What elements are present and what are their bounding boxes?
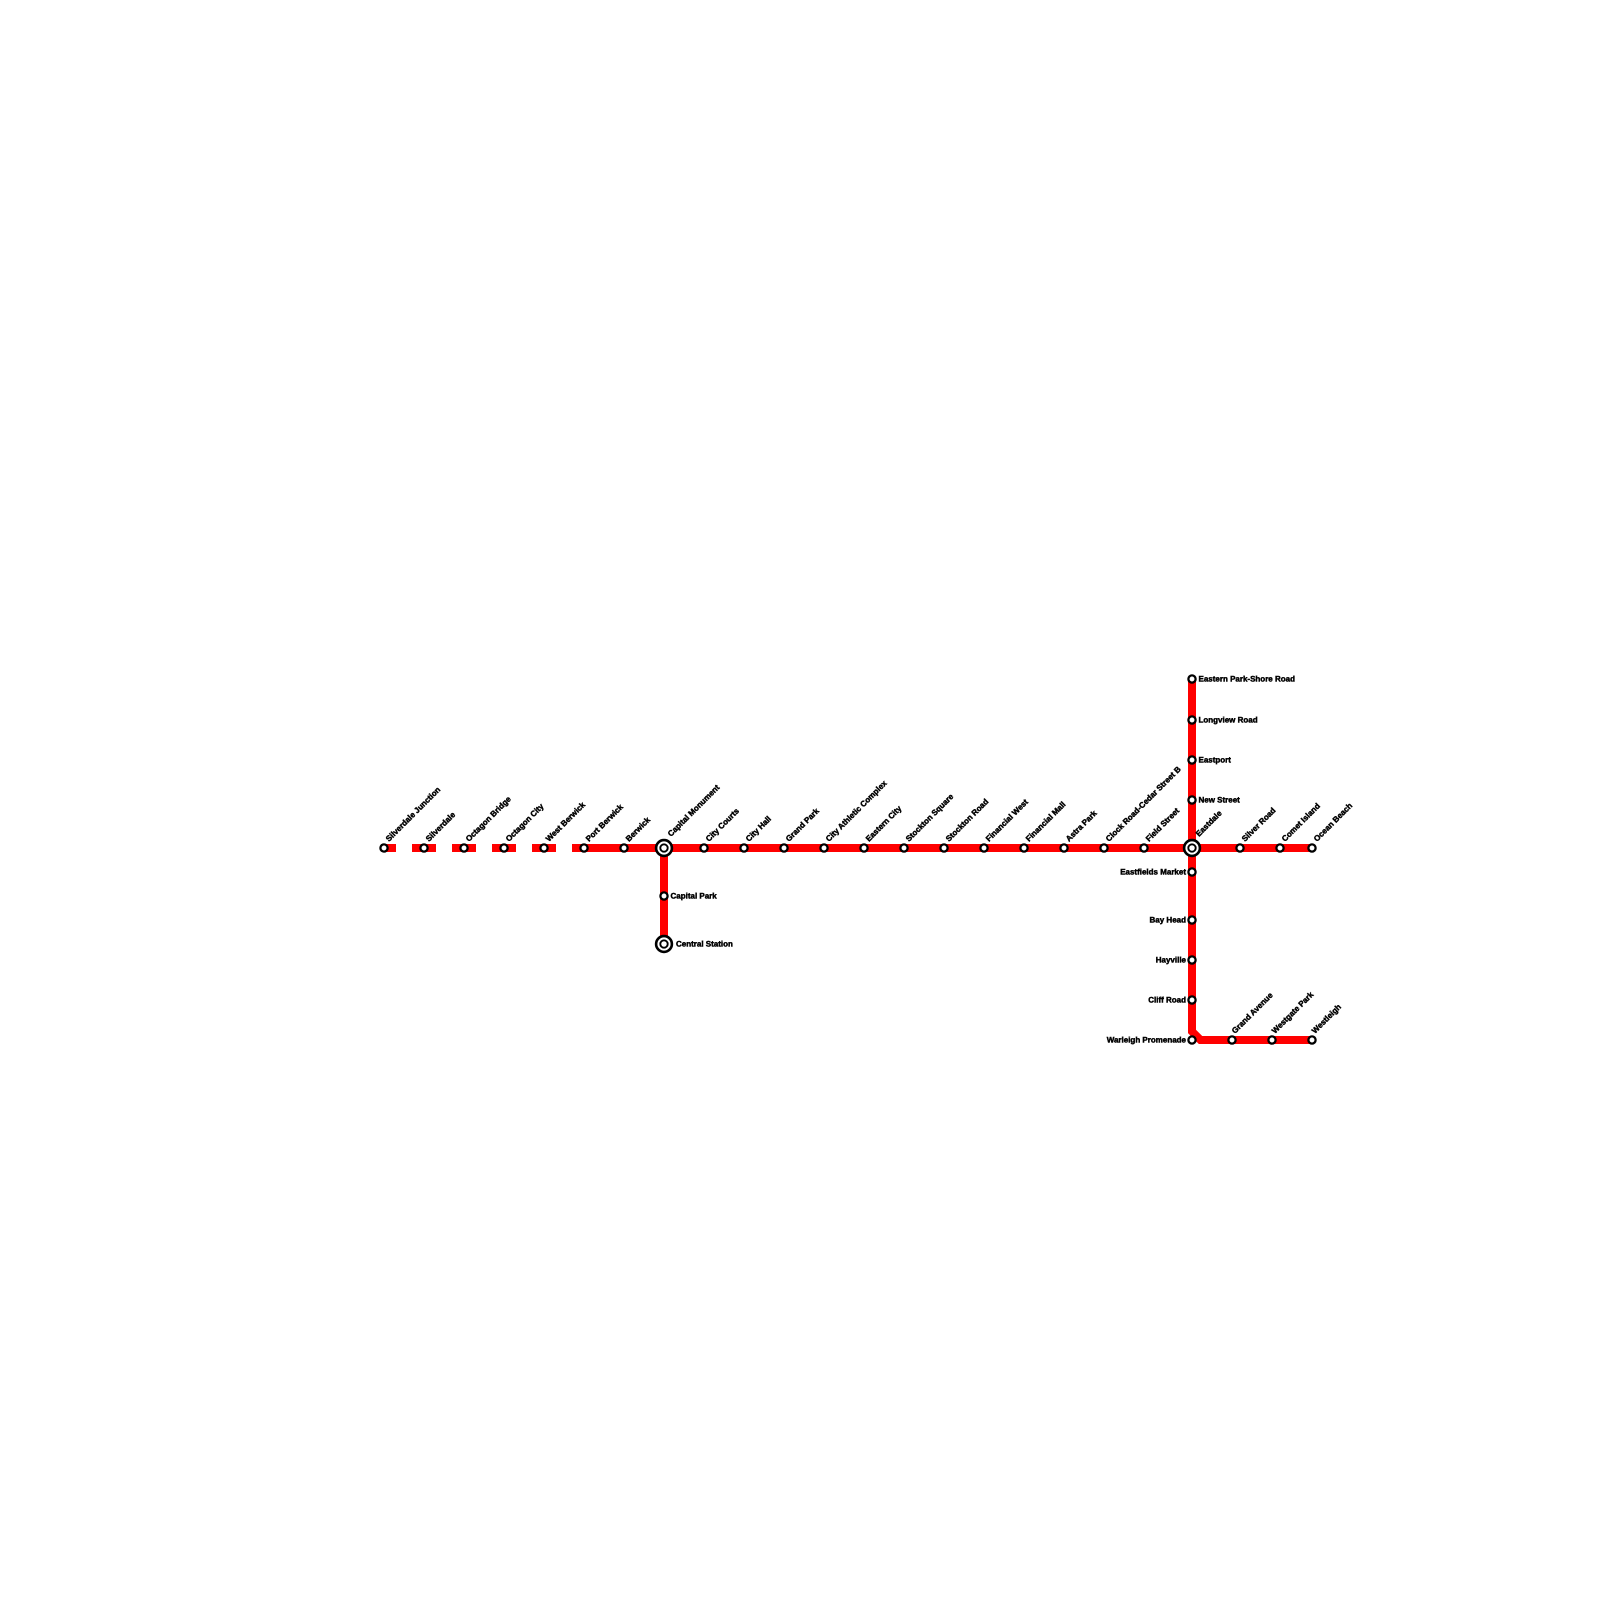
label Westgate Park <box>1270 990 1316 1036</box>
label Port Berwick <box>584 802 625 843</box>
station Silver Road <box>1236 844 1243 851</box>
svg-text:Central Station: Central Station <box>676 940 733 949</box>
label Financial West <box>984 797 1030 843</box>
label City Athletic Complex <box>824 778 889 843</box>
station Financial West <box>980 844 987 851</box>
station Central Station <box>656 936 672 952</box>
label Astra Park <box>1064 808 1099 843</box>
label Eastdale <box>1194 808 1224 838</box>
svg-text:Warleigh Promenade: Warleigh Promenade <box>1107 1036 1187 1045</box>
label West Berwick <box>544 800 587 843</box>
label Grand Park <box>784 806 821 843</box>
station Astra Park <box>1060 844 1067 851</box>
label Silverdale Junction <box>384 785 442 843</box>
station Silverdale <box>420 844 427 851</box>
station City Courts <box>700 844 707 851</box>
station Eastern City <box>860 844 867 851</box>
station Field Street <box>1140 844 1147 851</box>
station Capital Monument <box>656 840 672 856</box>
label City Courts <box>704 806 741 843</box>
label Cliff Road <box>1148 996 1186 1005</box>
svg-text:Eastport: Eastport <box>1199 756 1232 765</box>
svg-text:Longview Road: Longview Road <box>1199 716 1258 725</box>
station Stockton Road <box>940 844 947 851</box>
label Grand Avenue <box>1230 990 1275 1035</box>
label Capital Monument <box>666 783 722 839</box>
node stations <box>380 675 1315 1043</box>
station Eastern Park-Shore Road <box>1188 675 1195 682</box>
svg-text:New Street: New Street <box>1199 796 1241 805</box>
station Clock Road-Cedar Street B <box>1100 844 1107 851</box>
station Comet Island <box>1276 844 1283 851</box>
label Central Station <box>676 940 733 949</box>
svg-text:Eastfields Market: Eastfields Market <box>1120 868 1186 877</box>
label New Street <box>1199 796 1241 805</box>
station Stockton Square <box>900 844 907 851</box>
svg-text:Eastern Park-Shore Road: Eastern Park-Shore Road <box>1199 675 1296 684</box>
svg-text:Capital Park: Capital Park <box>671 892 718 901</box>
station Eastdale <box>1184 840 1200 856</box>
station Ocean Beach <box>1308 844 1315 851</box>
wire central branch down from Capital Monument <box>660 848 668 944</box>
station Grand Park <box>780 844 787 851</box>
svg-text:Cliff Road: Cliff Road <box>1148 996 1186 1005</box>
label Bay Head <box>1150 916 1187 925</box>
station Berwick <box>620 844 627 851</box>
label Field Street <box>1144 806 1181 843</box>
station Westgate Park <box>1268 1036 1275 1043</box>
station Grand Avenue <box>1228 1036 1235 1043</box>
station City Athletic Complex <box>820 844 827 851</box>
label Capital Park <box>671 892 718 901</box>
label Silver Road <box>1240 806 1278 844</box>
station Silverdale Junction <box>380 844 387 851</box>
station Eastport <box>1188 756 1195 763</box>
label Comet Island <box>1280 801 1322 843</box>
label Financial Mall <box>1024 800 1067 843</box>
label Clock Road-Cedar Street B <box>1104 765 1183 844</box>
label Eastern Park-Shore Road <box>1199 675 1296 684</box>
svg-text:Bay Head: Bay Head <box>1150 916 1187 925</box>
label Stockton Square <box>904 792 956 844</box>
station Eastfields Market <box>1188 868 1195 875</box>
label Ocean Beach <box>1312 801 1354 843</box>
label Octagon Bridge <box>464 794 513 843</box>
station City Hall <box>740 844 747 851</box>
label Westleigh <box>1310 1002 1343 1035</box>
station Octagon Bridge <box>460 844 467 851</box>
station Port Berwick <box>580 844 587 851</box>
label Eastfields Market <box>1120 868 1186 877</box>
svg-text:Hayville: Hayville <box>1156 956 1187 965</box>
station Financial Mall <box>1020 844 1027 851</box>
wire dashed western section of red line <box>384 844 572 852</box>
label Octagon City <box>504 801 546 843</box>
station Westleigh <box>1308 1036 1315 1043</box>
label Warleigh Promenade <box>1107 1036 1187 1045</box>
station Octagon City <box>500 844 507 851</box>
label City Hall <box>744 814 773 843</box>
station West Berwick <box>540 844 547 851</box>
station Longview Road <box>1188 716 1195 723</box>
station Capital Park <box>660 892 667 899</box>
label Silverdale <box>424 810 457 843</box>
label Hayville <box>1156 956 1187 965</box>
node labels <box>384 675 1354 1045</box>
label Eastern City <box>864 804 904 844</box>
label Longview Road <box>1199 716 1258 725</box>
station Hayville <box>1188 956 1195 963</box>
station Bay Head <box>1188 916 1195 923</box>
wire main solid red line <box>572 844 1312 852</box>
label Berwick <box>624 815 652 843</box>
wire eastern branch vertical and bottom horizontal <box>1192 679 1312 1040</box>
label Stockton Road <box>944 797 990 843</box>
station Cliff Road <box>1188 996 1195 1003</box>
station New Street <box>1188 796 1195 803</box>
label Eastport <box>1199 756 1232 765</box>
station Warleigh Promenade <box>1188 1036 1195 1043</box>
